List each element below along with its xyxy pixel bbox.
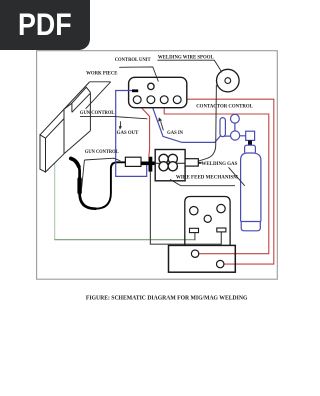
svg-text:GAS IN: GAS IN bbox=[167, 130, 183, 136]
regulator flowmeter capsule bbox=[220, 118, 225, 137]
wire outlet guide rect bbox=[185, 159, 198, 166]
torch nozzle thicker tip bbox=[71, 158, 79, 166]
wire black from torch connector down to power source right slot bbox=[150, 172, 221, 245]
cylinder valve stem black bbox=[248, 140, 252, 145]
regulator gauge top circle bbox=[231, 114, 240, 123]
cylinder valve square bbox=[246, 131, 255, 140]
svg-text:GAS OUT: GAS OUT bbox=[117, 130, 139, 136]
work piece plate 2 left edge bbox=[63, 109, 65, 154]
black stub left slot to green wire bbox=[194, 233, 196, 241]
svg-text:CONTROL UNIT: CONTROL UNIT bbox=[115, 57, 151, 63]
regulator gauge stem bbox=[234, 123, 236, 131]
torch handle bulge bbox=[77, 179, 81, 193]
svg-text:WELDING GAS: WELDING GAS bbox=[201, 161, 237, 167]
PDF badge bbox=[0, 0, 90, 50]
feed rollers bbox=[159, 154, 168, 163]
frame border bbox=[37, 51, 278, 280]
dash before WELDING GAS bbox=[198, 162, 201, 164]
work piece plate 2 outer band edge bbox=[72, 87, 91, 103]
svg-text:WORK PIECE: WORK PIECE bbox=[86, 70, 118, 76]
svg-text:FIGURE: SCHEMATIC DIAGRAM FOR: FIGURE: SCHEMATIC DIAGRAM FOR MIG/MAG WE… bbox=[86, 294, 248, 301]
svg-text:WELDING WIRE SPOOL: WELDING WIRE SPOOL bbox=[158, 54, 214, 60]
power source terminal box bbox=[169, 245, 236, 272]
wire red gun-control from control unit circle1 to torch connector bbox=[138, 103, 150, 156]
power source slots bbox=[190, 228, 199, 232]
welding wire spool bbox=[217, 69, 240, 92]
torch cable return side bbox=[95, 162, 126, 208]
torch connector plus horizontal bar bbox=[141, 162, 159, 166]
wire feed mechanism box bbox=[155, 150, 185, 181]
wire red inner loop circle3 to power terminal 1 bbox=[164, 104, 269, 254]
control unit sockets bbox=[133, 96, 141, 104]
work piece plate 1 end face bbox=[40, 135, 46, 172]
work piece plate 2 end top bbox=[64, 103, 72, 112]
work piece plate 1 outer band edge and leader bbox=[40, 82, 90, 135]
wire red outer loop control unit right edge to power terminal 2 bbox=[187, 99, 274, 264]
regulator body circle bbox=[231, 131, 240, 140]
wire blue gas-in hose circle2 to regulator bbox=[151, 104, 230, 143]
work piece plate 1 bottom edge bbox=[46, 154, 65, 172]
wire green earth vertical from work piece bbox=[54, 163, 56, 240]
wire green earth horizontal to power source left slot bbox=[54, 239, 195, 241]
welding wire from spool to outlet guide bbox=[198, 85, 216, 161]
feed line through box bbox=[155, 162, 185, 164]
work piece plate 2 right edge bbox=[89, 92, 91, 130]
work piece leader right bbox=[86, 82, 111, 109]
gas cylinder body bbox=[241, 153, 261, 222]
torch cable connector rect bbox=[125, 157, 141, 166]
wire blue gas-out loop black bar to torch connector bbox=[116, 91, 147, 177]
power source dials bbox=[190, 207, 198, 215]
torch cable bbox=[71, 158, 96, 208]
regulator link to valve square bbox=[240, 135, 246, 137]
svg-text:GUN CONTROL: GUN CONTROL bbox=[80, 110, 115, 116]
svg-text:CONTACTOR CONTROL: CONTACTOR CONTROL bbox=[196, 104, 253, 110]
work piece plate 2 bottom edge bbox=[64, 131, 90, 154]
work piece plate 2 face top edge bbox=[72, 93, 91, 112]
gas cylinder base bbox=[241, 222, 261, 231]
svg-text:WIRE FEED MECHANISM: WIRE FEED MECHANISM bbox=[176, 175, 239, 181]
control unit gas-out port black bar bbox=[132, 89, 138, 92]
power source upper cabinet bbox=[185, 197, 230, 246]
work piece plate 1 top inner edge bbox=[46, 119, 65, 139]
svg-text:GUN CONTROL: GUN CONTROL bbox=[85, 149, 119, 155]
torch connector plus vertical bar bbox=[149, 157, 153, 172]
control unit top knob bbox=[148, 83, 154, 89]
control unit U1 box bbox=[129, 77, 187, 107]
gas cylinder neck bbox=[245, 145, 256, 153]
terminal circles bbox=[191, 250, 198, 257]
